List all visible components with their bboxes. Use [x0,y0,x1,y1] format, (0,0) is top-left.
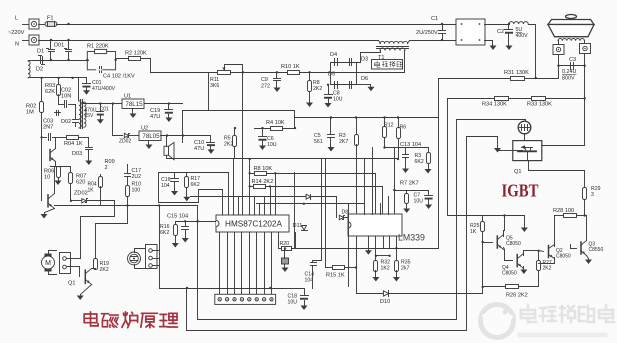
wire R02 [41,78,43,101]
ground X1 [282,267,289,273]
resistor R33 130K [532,97,546,101]
wire fan leads [135,249,146,253]
wire R28 row [555,215,564,217]
ground C01 [83,88,90,95]
svg-text:F1: F1 [47,16,54,22]
wire pot row [151,72,331,74]
sensor thermal [518,121,531,134]
resistor R35 2K7 [395,261,399,272]
resistor R15 1K [333,266,345,270]
junction R31 [535,77,537,79]
wire D1 row [33,60,89,62]
resistor R31 130K [511,77,525,81]
box T1 label [372,60,403,70]
wire R3 6K2 [428,148,430,153]
junction R26 [482,286,484,288]
resistor R4 10K [271,127,283,131]
junction C2 [508,23,510,25]
fan FAN [128,252,141,265]
wire bridge mid [331,73,357,85]
ground R06 [55,179,62,186]
svg-text:D8: D8 [342,210,349,216]
choke L2 [509,22,528,24]
wire R09 [100,175,102,177]
diode D6 [350,82,352,89]
wire C15 [185,222,187,227]
wire R04 [79,137,89,139]
wire R16 [175,222,177,225]
wire BR1 out [485,24,509,26]
junction col b [249,172,251,174]
svg-text:D10: D10 [380,299,390,305]
ground R7 [403,208,410,214]
junction C8 [327,84,329,86]
ground Q3 [585,259,592,265]
svg-text:Q1: Q1 [514,169,521,175]
wire C16 [174,173,176,179]
svg-text:C1947U: C1947U [150,108,160,120]
svg-text:R36K2: R36K2 [415,153,424,165]
watermark [481,305,615,338]
ground R32 [372,277,379,282]
wire block left [182,111,184,143]
wire R03 b [58,95,60,105]
pot vessel [548,15,594,37]
wire zd02 b [87,200,115,202]
junction R4 b [294,127,296,129]
varistor D01a [47,41,55,61]
junction R07 bottom [70,200,72,202]
wire mid row 205 [55,205,198,207]
wire C10 [210,136,212,143]
svg-text:R041K: R041K [88,182,97,194]
junction L1 b [269,287,271,289]
wire R32 [375,249,377,261]
junction R1 right [114,59,116,61]
svg-text:R251K: R251K [470,223,480,235]
wire Q1 left e [45,209,55,213]
junction R6 [397,116,399,118]
svg-text:R272K2: R272K2 [543,260,552,272]
wire C02 a [59,104,64,106]
text title 理 [160,313,178,327]
ground drive [521,216,528,233]
junction R10 [308,71,310,73]
svg-text:N: N [15,42,19,48]
wire C01 [86,78,88,84]
capacitor C2 5U/400V [505,30,514,34]
wire pot feed mcu [242,73,244,215]
wire D10 row [357,293,483,295]
wire Q3 c [586,216,588,241]
capacitor C01 47U/400V [83,84,91,88]
ground Q1 bottom [77,295,84,301]
resistor R16 6K2 [174,225,178,236]
wire C2 [508,25,510,30]
wire base row [42,137,47,139]
resistor R19 2K2 [94,259,98,270]
ground C19 [165,115,172,123]
wire Q2 c [554,246,556,247]
wire C04 [100,104,102,112]
wire gate stub [498,150,513,152]
wire C7 [428,191,430,196]
capacitor C19 47U [165,110,173,114]
wire R7 [406,191,408,194]
resistor R5 2K2 [233,136,237,147]
wire T1 sec right [404,51,406,73]
resistor R32 1K2 [374,261,378,272]
svg-text:HMS87C1202A: HMS87C1202A [225,219,282,228]
junction C9 [276,71,278,73]
wire Q5 c [503,231,505,237]
junction r14 b [269,185,271,187]
svg-text:D2: D2 [36,67,43,73]
coil terminal b [580,41,591,54]
text title 电 [84,312,98,326]
wire C18 row [272,288,305,290]
svg-text:D1: D1 [37,49,44,55]
svg-text:5U400V: 5U400V [516,27,529,39]
junction D1 row b [67,59,69,61]
diode D4 [335,59,338,66]
svg-text:C2: C2 [497,29,504,35]
wire C6 [262,129,264,137]
transformer T1 secondary [380,48,405,51]
wire MCU bottom pins [220,233,272,299]
ground BR1 [490,45,497,51]
transformer T1 core [377,46,409,48]
wire block bottom [295,248,439,250]
transistor Q4 [517,254,523,269]
resistor R17 6K2 [185,177,189,188]
capacitor D03 [86,148,93,150]
junction R3 [355,116,357,118]
svg-text:R321K2: R321K2 [381,260,391,272]
diode D5 [335,82,338,89]
wire Q5 base [483,242,493,244]
wire R31 row [439,78,559,80]
capacitor C18 10U [300,296,309,300]
wire lm339 left drop [348,204,350,287]
svg-text:R2 120K: R2 120K [125,51,147,57]
junction r8 pin [274,172,276,174]
svg-text:78L15: 78L15 [125,101,143,108]
junction mid 159 [158,204,160,206]
svg-text:C0210N: C0210N [61,88,71,100]
capacitor C03 [49,134,51,141]
junction R33 [584,97,586,99]
junction C1 top [441,23,443,25]
wire 5V rail b [129,135,139,137]
wire mcu row 204 [257,203,365,205]
ground D03 [85,159,92,166]
svg-text:R352k7: R352k7 [401,260,411,272]
wire pot row ext [331,72,405,74]
svg-text:R021M: R021M [26,104,36,116]
svg-text:C1: C1 [431,16,438,22]
resistor R07 620 [69,173,73,184]
wire R7 col [394,148,396,215]
wire left pin col [249,159,251,215]
ground R16 [172,243,179,248]
wire CN2 drop [159,206,161,289]
wire bridge top [331,63,357,73]
capacitor C5 561 [328,135,335,138]
coil L1 winding [558,38,584,40]
rectifier BR1 [456,19,485,45]
capacitor C15 [182,227,189,230]
wire D03 [88,138,90,147]
resistor R29 3 [583,188,587,200]
wire Q3 e [587,256,589,259]
terminal J1 L [23,19,40,29]
wire R29 b [584,200,586,216]
ground U1 [130,109,137,119]
ground C04 [97,116,104,124]
crystal X1 [282,258,289,264]
capacitor C10 47U [207,143,216,147]
wire block mid row [185,158,399,160]
junction X1 [284,247,286,249]
capacitor C6 10U [259,137,267,141]
wire 5V rail [113,104,123,136]
ground C13 [402,167,409,174]
wire R4 row [255,128,295,130]
junction lm339 c [395,247,397,249]
wire R34 row [448,98,585,100]
wire R28 right [577,215,585,217]
wire C1 [442,25,444,31]
wire pot drop [208,73,210,111]
ground C6 [259,145,266,151]
svg-text:R26 2K2: R26 2K2 [506,293,528,299]
resistor R3 6K2 [427,153,431,164]
svg-text:R6: R6 [400,125,407,131]
wire Q1 bottom c [92,269,96,270]
wire C8 [328,85,330,95]
svg-text:C15 104: C15 104 [167,214,188,220]
wire R15 right [345,267,357,269]
wire L1 row [160,288,272,290]
label T1 name 3 [390,61,395,67]
svg-text:L: L [15,16,18,22]
svg-text:R176K2: R176K2 [191,176,201,188]
transistor Q3 [581,241,587,256]
junction drive top [503,214,505,216]
wire zd02 a [71,200,82,202]
ground LM339 [365,249,372,255]
label T1 name 电流检测 [375,61,380,67]
svg-text:D02: D02 [61,119,71,125]
IGBT Q1 box [513,141,542,161]
wire R35 [396,249,398,261]
wire block2 right [228,173,230,215]
svg-text:R10 1K: R10 1K [281,64,300,70]
resistor R02 1M [40,102,44,113]
wire C3 right [584,54,586,66]
wire bus N [39,40,379,42]
wire C02 b [69,104,76,106]
connector CN2 [146,245,158,269]
svg-text:C710U: C710U [414,193,424,205]
svg-text:Q2C8050: Q2C8050 [556,248,571,260]
wire Q2 base [539,251,544,252]
zener D11 [302,226,308,231]
wire Q1 left base [41,195,43,201]
junction c15 b [197,220,199,222]
IC U1 78L15 [122,99,144,109]
wire left col [41,138,43,195]
capacitor C9 [274,79,281,81]
svg-text:2U/250V: 2U/250V [416,30,438,36]
junction col a [249,158,251,160]
ground R3 6K2 [425,169,432,174]
svg-text:R293: R293 [591,186,601,198]
text title 磁 [101,314,118,328]
resistor R27 2K2 [537,261,541,271]
wire R6 [398,118,400,128]
svg-text:R4 10K: R4 10K [266,120,285,126]
diode D02b [73,105,79,127]
ground C16 [171,191,178,196]
resistor R14 2K2 [254,185,266,189]
wire C14 down [312,266,314,289]
diode D02 [55,111,61,116]
svg-text:Q5C8050: Q5C8050 [506,236,521,248]
ground U2 [146,141,153,150]
resistor R6 [397,128,401,139]
resistor R04 1K [67,136,79,140]
svg-text:C172U2: C172U2 [132,168,142,180]
label T1 name 2 [382,62,388,67]
junction bus N b [67,39,69,41]
junction R25 base [482,241,484,243]
ground C2 [506,45,513,51]
wire L3 loop [187,137,498,331]
svg-text:LM339: LM339 [398,233,425,243]
resistor R03 [57,85,61,96]
svg-text:R10100: R10100 [132,182,142,194]
svg-text:C610U: C610U [267,136,277,148]
wire R5 [234,129,236,136]
capacitor C02 10N [65,101,67,108]
svg-text:C16104: C16104 [161,177,171,189]
wire R03 [58,78,60,85]
wire R4 row feed [294,118,296,129]
wire T2 sec top [83,103,85,104]
wire C14 feed [313,159,322,263]
junction low rail b [57,77,59,79]
wire Q01 c [55,138,57,149]
wire C13 row [385,147,429,149]
fuse F1 [45,22,57,27]
wire emitter row [51,166,71,168]
svg-text:R192K2: R192K2 [100,261,110,273]
wire R26 right [519,286,539,288]
junction R28 [584,214,586,216]
transistor Q01 [50,149,56,162]
resistor R26 2K2 [506,285,519,289]
resistor R3 2K7 [355,135,359,146]
ground bridge [368,85,375,92]
wire C9 [276,73,278,79]
junction L1 a [186,287,188,289]
terminal J2 N [23,35,40,45]
wire R02 b [41,113,43,138]
wire base row b [53,137,67,139]
junction 5v a [166,134,168,136]
svg-text:C1047U: C1047U [194,140,204,152]
ground C10 [208,147,215,154]
wire CN1 low [79,267,81,277]
svg-text:R52K2: R52K2 [224,136,233,148]
svg-text:R0362K: R0362K [45,83,55,95]
wire R26 row [483,286,506,288]
resistor R10 1K [288,71,300,75]
wire R27 [538,251,540,261]
wire T1 sec left [357,51,381,63]
svg-text:C0147U/400V: C0147U/400V [92,80,116,92]
junction bus N a [50,39,52,41]
wire Q2 col [554,216,556,246]
svg-text:R33 130K: R33 130K [527,102,552,108]
junction R6 b [397,158,399,160]
resistor R34 130K [495,97,509,101]
wire Q2 e [539,258,555,264]
capacitor C3 0.24U [571,63,574,70]
junction R27 top [537,250,539,252]
junction C3 a [557,65,559,67]
wire R12 [384,118,386,127]
wire BR1 gnd [485,41,493,45]
junction lm a [375,255,377,257]
wire Q1 bottom e [81,285,92,295]
svg-text:R32K7: R32K7 [339,133,348,145]
ground C5 [328,147,335,152]
capacitor C7 10U [425,196,433,200]
wire CN2 pins [153,250,160,252]
wire c15 row [176,221,217,223]
junction lm b [388,255,390,257]
wire R2 row [117,59,151,73]
resistor R7 2K7 [405,194,409,204]
resistor R8 10K [255,172,267,176]
junction R15 [355,266,357,268]
svg-text:R31 130K: R31 130K [504,70,529,76]
wire C13 [405,148,407,155]
wire R17 [186,173,188,177]
resistor R20 [282,247,292,251]
capacitor C13 [403,155,409,158]
wire R20 loop [279,233,282,249]
svg-text:R82K2: R82K2 [313,80,322,92]
wire MCU top pins [223,160,276,215]
svg-text:D11: D11 [293,223,303,229]
svg-text:D01: D01 [54,43,64,49]
svg-text:C810U: C810U [333,91,343,103]
junction R12 [383,116,385,118]
capacitor C04 470U/25V [97,112,104,116]
wire Q01 e [55,162,57,167]
svg-text:R092: R092 [105,159,115,171]
svg-text:R7 2K7: R7 2K7 [400,181,419,187]
wire block top 1 [183,111,439,118]
wire C3 row [559,55,585,66]
transistor Q1 left [48,194,55,209]
resistor R18 100 [126,186,130,197]
wire block left2 [294,173,296,249]
